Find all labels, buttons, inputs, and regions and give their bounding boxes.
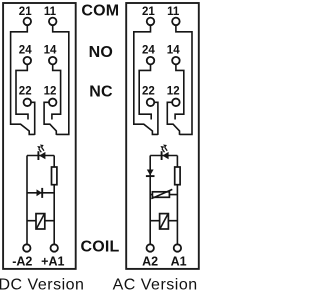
AC LED branch wire xyxy=(150,155,177,157)
diode V (DC) cathode bar xyxy=(41,188,43,198)
pin 11 terminal circle (AC) xyxy=(172,18,180,26)
varistor RV (AC) xyxy=(151,189,172,198)
svg-text:AC Version: AC Version xyxy=(113,276,198,293)
svg-text:A2: A2 xyxy=(142,254,158,268)
pin 24 terminal circle (AC) xyxy=(147,57,155,65)
pin 22 terminal circle (DC) xyxy=(24,99,32,107)
wire pin22 to NC contact rail pole1 (AC) xyxy=(154,102,158,135)
svg-text:NC: NC xyxy=(89,84,113,101)
rectifier diode (AC) cathode bar xyxy=(146,175,155,177)
DC freewheeling diode branch wire xyxy=(27,192,54,194)
pin 14 terminal circle (DC) xyxy=(49,57,57,65)
DC coil branch wire xyxy=(27,220,54,222)
pin 12 terminal circle (AC) xyxy=(172,99,180,107)
LED light emission arrows (DC) xyxy=(37,145,44,153)
AC coil circuit left wire (A2 branch) xyxy=(149,156,151,244)
DC coil circuit left wire (-A2 branch) xyxy=(26,156,28,244)
wire pin21 to left rail / COM blade pole1 (AC) xyxy=(134,26,158,135)
svg-text:A1: A1 xyxy=(171,254,187,268)
relay coil (DC) xyxy=(36,214,45,229)
svg-text:11: 11 xyxy=(44,6,57,18)
wire pin14 to NO stub pole2 (AC) xyxy=(175,65,184,120)
pin 12 terminal circle (DC) xyxy=(49,99,57,107)
pin 14 terminal circle (AC) xyxy=(172,57,180,65)
svg-text:22: 22 xyxy=(142,86,155,98)
wire pin11 to right rail pole2 (DC) xyxy=(53,26,69,135)
terminal -A2 circle (DC) xyxy=(23,244,30,251)
svg-text:11: 11 xyxy=(167,6,180,18)
pin 22 terminal circle (AC) xyxy=(147,99,155,107)
rectifier diode (AC) triangle, inline on left wire xyxy=(147,170,154,176)
wire pin12 to COM blade pole2 (AC) xyxy=(167,102,179,135)
resistor R (DC, series with LED) xyxy=(52,167,57,185)
wire pin24 to NO stub pole1 (AC) xyxy=(139,65,151,120)
LED indicator triangle (DC) xyxy=(39,152,45,159)
wire pin21 to left rail / COM blade pole1 (DC) xyxy=(11,26,35,135)
svg-text:22: 22 xyxy=(19,86,32,98)
DC coil circuit right wire (+A1 branch) xyxy=(53,156,55,244)
svg-text:+A1: +A1 xyxy=(41,254,64,268)
LED indicator cathode bar (AC) xyxy=(161,151,163,160)
wire pin14 to NO stub pole2 (DC) xyxy=(52,65,61,120)
AC version outline box xyxy=(126,3,199,269)
LED indicator cathode bar (DC) xyxy=(37,151,39,160)
svg-text:COIL: COIL xyxy=(80,238,119,255)
terminal A1 circle (AC) xyxy=(174,244,181,251)
svg-text:12: 12 xyxy=(167,86,180,98)
AC coil branch wire xyxy=(150,220,177,222)
svg-text:21: 21 xyxy=(142,6,155,18)
terminal +A1 circle (DC) xyxy=(51,244,58,251)
svg-text:COM: COM xyxy=(81,2,119,19)
LED indicator triangle (AC) xyxy=(162,152,168,159)
svg-text:21: 21 xyxy=(19,6,32,18)
pin 11 terminal circle (DC) xyxy=(49,18,57,26)
svg-text:12: 12 xyxy=(44,86,57,98)
DC version outline box xyxy=(3,3,76,269)
pin 21 terminal circle (DC) xyxy=(24,18,32,26)
svg-text:NO: NO xyxy=(89,44,113,61)
svg-text:24: 24 xyxy=(19,44,32,56)
wire pin22 to NC contact rail pole1 (DC) xyxy=(31,102,35,135)
svg-text:DC Version: DC Version xyxy=(0,276,84,293)
svg-text:24: 24 xyxy=(142,44,155,56)
wire pin24 to NO stub pole1 (DC) xyxy=(16,65,28,120)
svg-text:-A2: -A2 xyxy=(12,254,32,268)
relay coil (AC) xyxy=(160,214,169,229)
wire pin12 to COM blade pole2 (DC) xyxy=(44,102,56,135)
svg-text:14: 14 xyxy=(44,44,57,56)
wire pin11 to right rail pole2 (AC) xyxy=(176,26,192,135)
AC varistor branch wire xyxy=(150,194,177,196)
AC coil circuit right wire (A1 branch) xyxy=(176,156,178,244)
svg-text:14: 14 xyxy=(167,44,180,56)
LED light emission arrows (AC) xyxy=(160,145,167,153)
diode V (DC) triangle xyxy=(37,189,42,196)
terminal A2 circle (AC) xyxy=(147,244,154,251)
pin 21 terminal circle (AC) xyxy=(147,18,155,26)
pin 24 terminal circle (DC) xyxy=(24,57,32,65)
resistor R (AC, series with LED) xyxy=(175,167,180,185)
DC LED branch wire xyxy=(27,155,54,157)
